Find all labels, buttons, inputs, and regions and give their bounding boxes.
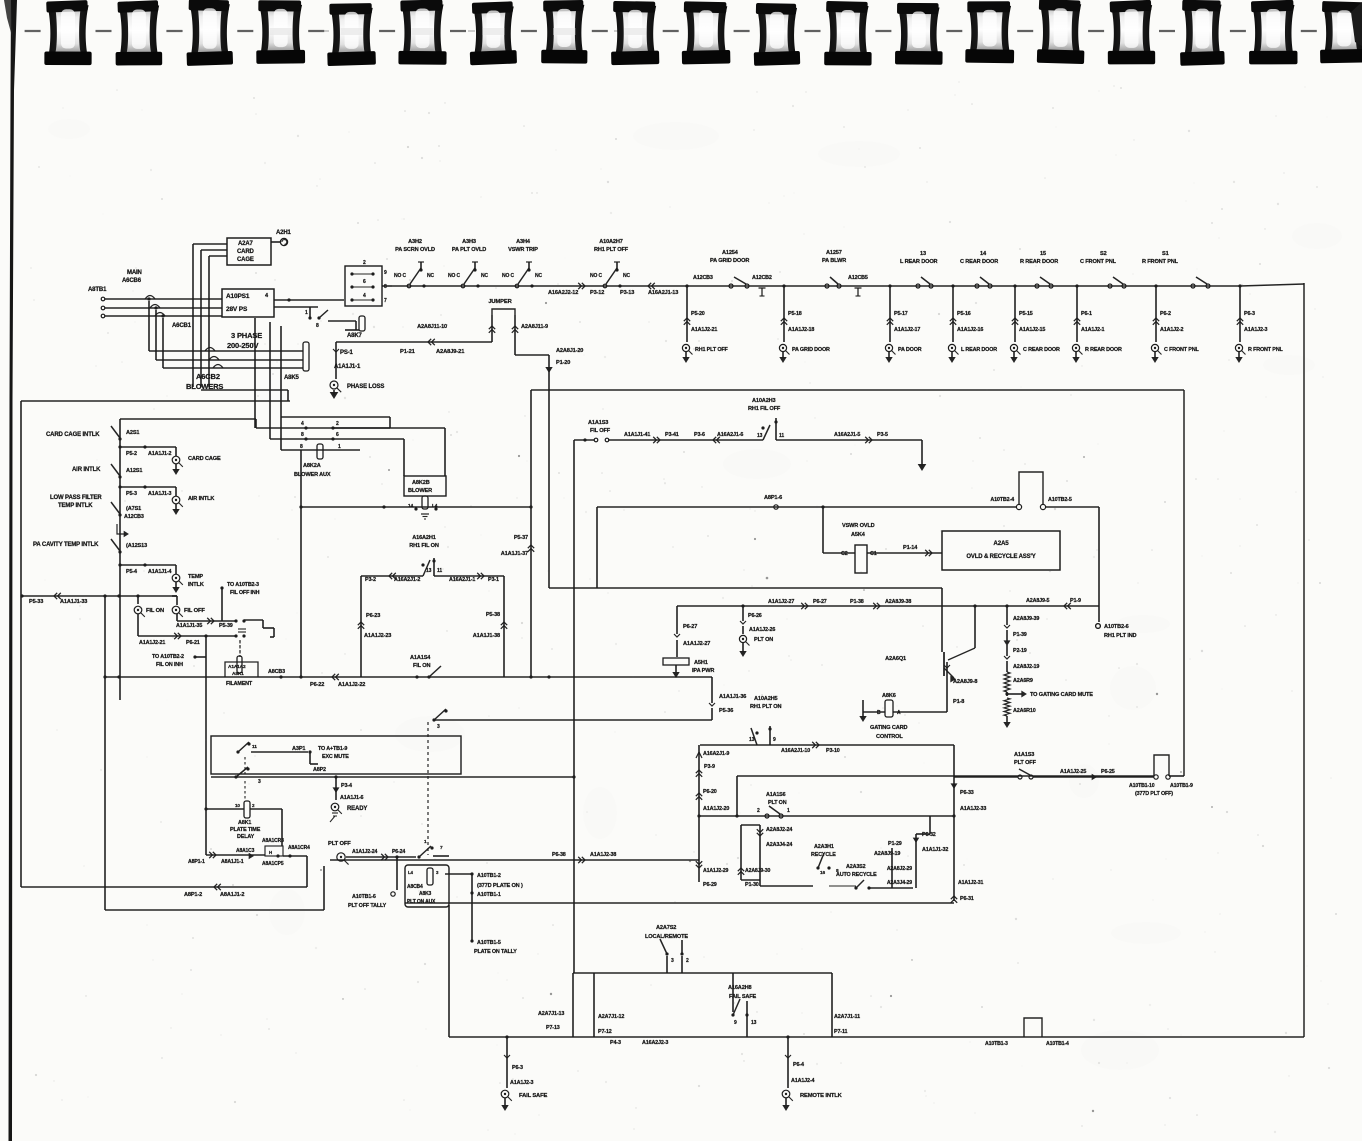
svg-text:A2S1: A2S1	[126, 430, 139, 436]
svg-text:8: 8	[316, 323, 319, 329]
svg-text:A1A1J1-32: A1A1J1-32	[922, 847, 948, 853]
svg-text:7: 7	[384, 298, 387, 304]
svg-text:C REAR DOOR: C REAR DOOR	[960, 259, 998, 265]
svg-text:P6-25: P6-25	[1101, 769, 1115, 775]
svg-text:A2H1: A2H1	[276, 230, 292, 236]
svg-text:A8K1: A8K1	[238, 820, 251, 826]
svg-text:A1A1J2-26: A1A1J2-26	[749, 627, 775, 633]
svg-text:P5-18: P5-18	[788, 311, 802, 317]
svg-text:H: H	[269, 850, 272, 855]
svg-text:C REAR DOOR: C REAR DOOR	[1023, 347, 1060, 353]
svg-text:P6-21: P6-21	[186, 640, 200, 646]
svg-text:A2A8J2-19: A2A8J2-19	[1013, 664, 1039, 670]
svg-text:P5-33: P5-33	[29, 599, 43, 605]
svg-text:P5-39: P5-39	[219, 623, 233, 629]
svg-text:A8K6: A8K6	[882, 693, 896, 699]
svg-text:A2A6Q1: A2A6Q1	[885, 656, 906, 662]
svg-text:RH1 FIL OFF: RH1 FIL OFF	[748, 406, 781, 412]
svg-text:P4-3: P4-3	[610, 1040, 621, 1046]
svg-text:A1A1J2-31: A1A1J2-31	[958, 880, 983, 886]
svg-text:P1-30: P1-30	[745, 882, 759, 888]
svg-text:P6-27: P6-27	[813, 599, 827, 605]
svg-text:A16A2J2-12: A16A2J2-12	[548, 290, 578, 296]
svg-text:A8K7: A8K7	[347, 333, 363, 339]
svg-text:FIL OFF: FIL OFF	[590, 428, 611, 434]
svg-text:A8K1: A8K1	[232, 671, 244, 677]
svg-text:P3-1: P3-1	[488, 577, 499, 583]
svg-text:A2A7J1-11: A2A7J1-11	[834, 1014, 860, 1020]
svg-text:RH1 PLT IND: RH1 PLT IND	[1104, 633, 1137, 639]
svg-text:R REAR DOOR: R REAR DOOR	[1020, 259, 1058, 265]
svg-text:PA PLT OVLD: PA PLT OVLD	[452, 247, 486, 253]
svg-text:A6CB6: A6CB6	[122, 278, 142, 284]
svg-text:A2A8J2-24: A2A8J2-24	[766, 827, 792, 833]
svg-text:A2A7: A2A7	[238, 241, 254, 247]
svg-text:A1A1A2: A1A1A2	[228, 664, 246, 670]
svg-text:NC: NC	[481, 273, 488, 279]
svg-text:P1-21: P1-21	[400, 349, 416, 355]
svg-text:A1A1J1-3: A1A1J1-3	[148, 491, 172, 497]
svg-text:A2A8J9-19: A2A8J9-19	[874, 851, 900, 857]
svg-text:A16A2J2-3: A16A2J2-3	[642, 1040, 668, 1046]
svg-text:A1254: A1254	[722, 250, 739, 256]
svg-text:14: 14	[980, 251, 987, 257]
svg-text:OVLD & RECYCLE ASS'Y: OVLD & RECYCLE ASS'Y	[966, 554, 1035, 560]
svg-text:6: 6	[363, 279, 366, 285]
svg-text:2: 2	[757, 808, 760, 814]
svg-text:9: 9	[384, 270, 387, 276]
svg-text:14: 14	[408, 503, 414, 509]
svg-text:P5-20: P5-20	[691, 311, 705, 317]
svg-text:1: 1	[338, 444, 341, 450]
svg-text:A3P1: A3P1	[292, 746, 305, 752]
svg-text:NO C: NO C	[502, 273, 514, 279]
svg-text:CARD CAGE: CARD CAGE	[188, 456, 221, 462]
svg-text:AIR INTLK: AIR INTLK	[72, 467, 101, 473]
svg-text:A10TB1-10: A10TB1-10	[1129, 783, 1155, 789]
svg-text:A2A8J11-9: A2A8J11-9	[521, 324, 548, 330]
svg-text:FIL OFF INH: FIL OFF INH	[230, 590, 260, 596]
svg-text:A2A7S2: A2A7S2	[656, 925, 676, 931]
svg-text:A8TB1: A8TB1	[88, 287, 107, 293]
svg-text:A10TB2-5: A10TB2-5	[1048, 497, 1072, 503]
svg-text:A1A1J2-27: A1A1J2-27	[683, 641, 710, 647]
svg-text:A16A2J1-5: A16A2J1-5	[834, 432, 860, 438]
svg-text:200-250V: 200-250V	[227, 341, 258, 350]
svg-text:P7-11: P7-11	[834, 1029, 847, 1035]
svg-text:P6-1: P6-1	[1081, 311, 1092, 317]
svg-text:C FRONT PNL: C FRONT PNL	[1164, 347, 1199, 353]
svg-text:A1A1J2-38: A1A1J2-38	[590, 852, 616, 858]
svg-text:CARD: CARD	[237, 249, 255, 255]
svg-text:A8A1CR4: A8A1CR4	[288, 845, 310, 851]
svg-text:A16A2J1-1: A16A2J1-1	[449, 577, 475, 583]
svg-text:JUMPER: JUMPER	[488, 299, 512, 305]
svg-text:LOW PASS FILTER: LOW PASS FILTER	[50, 495, 102, 501]
svg-text:(A12S13: (A12S13	[126, 543, 147, 549]
svg-text:NC: NC	[427, 273, 434, 279]
svg-text:P1-20: P1-20	[556, 360, 570, 366]
svg-text:11: 11	[779, 433, 784, 439]
svg-text:P6-2: P6-2	[1160, 311, 1171, 317]
svg-text:NO C: NO C	[590, 273, 602, 279]
svg-text:TEMP INTLK: TEMP INTLK	[58, 503, 93, 509]
svg-text:L4: L4	[408, 870, 414, 875]
svg-text:11: 11	[437, 568, 442, 574]
svg-text:1: 1	[305, 310, 308, 316]
svg-text:A3H3: A3H3	[462, 239, 476, 245]
svg-text:A10TB1-5: A10TB1-5	[477, 940, 501, 946]
svg-text:A1A1J2-33: A1A1J2-33	[960, 806, 986, 812]
svg-text:A8A1CP5: A8A1CP5	[262, 861, 284, 867]
svg-text:13: 13	[426, 568, 432, 574]
svg-text:2: 2	[686, 958, 689, 964]
svg-text:P7-12: P7-12	[598, 1029, 612, 1035]
svg-text:CARD CAGE INTLK: CARD CAGE INTLK	[46, 432, 100, 438]
svg-text:CONTROL: CONTROL	[876, 734, 903, 740]
svg-text:P1-38: P1-38	[850, 599, 864, 605]
svg-text:NO C: NO C	[448, 273, 460, 279]
svg-text:EXC MUTE: EXC MUTE	[322, 754, 349, 760]
svg-text:TO GATING CARD MUTE: TO GATING CARD MUTE	[1030, 692, 1093, 698]
svg-text:PHASE LOSS: PHASE LOSS	[347, 384, 384, 390]
svg-text:13: 13	[749, 737, 755, 743]
svg-text:PLT ON AUX: PLT ON AUX	[407, 899, 436, 905]
svg-text:NC: NC	[535, 273, 542, 279]
svg-text:P6-33: P6-33	[960, 790, 974, 796]
svg-text:PA GRID DOOR: PA GRID DOOR	[792, 347, 830, 353]
svg-text:A10TB1-9: A10TB1-9	[1170, 783, 1193, 789]
svg-text:A1A1J1-35: A1A1J1-35	[176, 623, 202, 629]
svg-text:A1A1J2-2: A1A1J2-2	[1160, 327, 1184, 333]
svg-text:10: 10	[235, 803, 240, 808]
svg-text:16: 16	[820, 870, 826, 876]
svg-text:A10TB1-4: A10TB1-4	[1046, 1041, 1069, 1047]
svg-text:A16A2H8: A16A2H8	[728, 985, 752, 991]
svg-text:C FRONT PNL: C FRONT PNL	[1080, 259, 1117, 265]
svg-text:P3-6: P3-6	[694, 432, 705, 438]
svg-text:L REAR DOOR: L REAR DOOR	[961, 347, 997, 353]
svg-text:P6-22: P6-22	[310, 682, 324, 688]
svg-text:P6-29: P6-29	[703, 882, 717, 888]
svg-text:A1A1J1-36: A1A1J1-36	[719, 694, 746, 700]
svg-text:A1A1S3: A1A1S3	[588, 420, 608, 426]
svg-text:IPA PWR: IPA PWR	[692, 668, 714, 674]
svg-text:A1A1J2-15: A1A1J2-15	[1019, 327, 1045, 333]
svg-text:6: 6	[336, 432, 339, 438]
svg-text:A2A5: A2A5	[993, 540, 1009, 547]
svg-text:(377D PLATE ON ): (377D PLATE ON )	[477, 883, 523, 889]
svg-text:P3-9: P3-9	[704, 764, 715, 770]
svg-text:TO A10TB2-3: TO A10TB2-3	[227, 582, 259, 588]
svg-text:P3-4: P3-4	[341, 783, 352, 789]
svg-text:A16A2H1: A16A2H1	[412, 535, 436, 541]
svg-text:3: 3	[671, 958, 674, 964]
svg-text:RH1 PLT OFF: RH1 PLT OFF	[594, 247, 629, 253]
svg-text:A2A3J4-24: A2A3J4-24	[766, 842, 792, 848]
svg-text:MAIN: MAIN	[127, 270, 142, 276]
svg-text:P5-17: P5-17	[894, 311, 908, 317]
svg-text:15: 15	[1040, 251, 1046, 257]
svg-text:P6-32: P6-32	[922, 832, 936, 838]
svg-text:P3-13: P3-13	[620, 290, 634, 296]
svg-text:A1A1J2-3: A1A1J2-3	[510, 1080, 534, 1086]
svg-text:A2A8J11-10: A2A8J11-10	[417, 324, 447, 330]
svg-text:A1A1J2-27: A1A1J2-27	[768, 599, 794, 605]
svg-text:A1A1J2-3: A1A1J2-3	[1244, 327, 1268, 333]
svg-text:A5H1: A5H1	[694, 660, 708, 666]
svg-text:A8A1J1-1: A8A1J1-1	[221, 859, 244, 865]
svg-text:A2A3H1: A2A3H1	[814, 844, 834, 850]
svg-text:A2A7J1-12: A2A7J1-12	[598, 1014, 624, 1020]
svg-text:A12CB3: A12CB3	[693, 275, 713, 281]
svg-text:PA DOOR: PA DOOR	[898, 347, 922, 353]
svg-text:A1A1J1-2: A1A1J1-2	[148, 451, 172, 457]
svg-text:A2A8J1-20: A2A8J1-20	[556, 348, 583, 354]
svg-text:A16A2J1-2: A16A2J1-2	[394, 577, 420, 583]
svg-text:A3H2: A3H2	[408, 239, 422, 245]
svg-text:P6-26: P6-26	[748, 613, 762, 619]
svg-text:P6-38: P6-38	[552, 852, 566, 858]
svg-text:VSWR OVLD: VSWR OVLD	[842, 523, 875, 529]
svg-text:9: 9	[734, 1020, 737, 1026]
svg-text:B: B	[877, 710, 881, 716]
svg-text:A1A1J2-17: A1A1J2-17	[894, 327, 920, 333]
svg-text:PA SCRN OVLD: PA SCRN OVLD	[395, 247, 435, 253]
svg-text:A2A8J9-21: A2A8J9-21	[436, 349, 465, 355]
svg-text:A16A2J1-10: A16A2J1-10	[781, 748, 810, 754]
svg-text:A10TB2-4: A10TB2-4	[990, 497, 1014, 503]
svg-text:READY: READY	[347, 806, 367, 812]
svg-text:A10PS1: A10PS1	[226, 293, 250, 300]
svg-text:C1: C1	[870, 551, 877, 557]
svg-text:A8K2A: A8K2A	[303, 463, 321, 469]
svg-text:2: 2	[336, 421, 339, 427]
svg-text:VSWR TRIP: VSWR TRIP	[508, 247, 538, 253]
svg-text:A2A3S2: A2A3S2	[846, 864, 866, 870]
svg-text:NC: NC	[623, 273, 630, 279]
svg-text:A1A1S3: A1A1S3	[1014, 752, 1034, 758]
svg-text:AIR INTLK: AIR INTLK	[188, 496, 214, 502]
svg-text:FAIL SAFE: FAIL SAFE	[519, 1093, 547, 1099]
svg-text:P5-4: P5-4	[126, 569, 137, 575]
svg-text:A1A1S4: A1A1S4	[410, 655, 431, 661]
svg-text:A8K5: A8K5	[284, 375, 300, 381]
svg-text:P6-20: P6-20	[703, 789, 717, 795]
svg-text:A16A2J1-9: A16A2J1-9	[703, 751, 729, 757]
svg-text:P5-36: P5-36	[719, 708, 733, 714]
svg-text:BLOWER AUX: BLOWER AUX	[294, 472, 331, 478]
svg-text:A10TB1-6: A10TB1-6	[352, 894, 376, 900]
svg-text:A16A2J1-6: A16A2J1-6	[717, 432, 743, 438]
svg-text:PA GRID DOOR: PA GRID DOOR	[710, 258, 749, 264]
svg-text:3: 3	[258, 779, 261, 785]
svg-text:PLATE TIME: PLATE TIME	[230, 827, 261, 833]
svg-text:A10TB1-1: A10TB1-1	[477, 892, 501, 898]
svg-text:P1-29: P1-29	[888, 841, 902, 847]
svg-text:1: 1	[787, 808, 790, 814]
svg-text:PLT OFF: PLT OFF	[328, 841, 351, 847]
svg-text:PLATE ON TALLY: PLATE ON TALLY	[474, 949, 517, 955]
svg-text:A5K4: A5K4	[851, 532, 866, 538]
svg-text:DELAY: DELAY	[237, 834, 255, 840]
svg-text:13: 13	[751, 1020, 757, 1026]
svg-text:A2A6R9: A2A6R9	[1013, 678, 1033, 684]
svg-text:FIL ON INH: FIL ON INH	[156, 662, 183, 668]
svg-text:A16A2J1-13: A16A2J1-13	[648, 290, 678, 296]
svg-text:(A7S1: (A7S1	[126, 506, 141, 512]
svg-text:PLT OFF: PLT OFF	[1014, 760, 1037, 766]
svg-text:P6-3: P6-3	[512, 1065, 523, 1071]
svg-text:3 PHASE: 3 PHASE	[231, 331, 262, 340]
svg-text:P2-19: P2-19	[1013, 648, 1027, 654]
svg-text:P5-16: P5-16	[957, 311, 971, 317]
svg-text:P6-23: P6-23	[366, 613, 380, 619]
svg-text:A2A8J9-8: A2A8J9-8	[953, 679, 977, 685]
svg-text:P3-41: P3-41	[665, 432, 679, 438]
svg-text:GATING CARD: GATING CARD	[870, 725, 908, 731]
svg-text:A1A1J1-37: A1A1J1-37	[501, 551, 528, 557]
svg-text:P6-4: P6-4	[793, 1062, 804, 1068]
svg-text:RH1 FIL ON: RH1 FIL ON	[409, 543, 439, 549]
svg-text:A1A1J2-21: A1A1J2-21	[139, 640, 165, 646]
svg-text:A2A8J2-29: A2A8J2-29	[887, 866, 912, 872]
svg-text:BLOWER: BLOWER	[408, 488, 432, 494]
svg-text:FIL ON: FIL ON	[146, 608, 164, 614]
svg-text:TEMP: TEMP	[188, 574, 203, 580]
svg-text:A: A	[897, 710, 901, 716]
svg-text:A2A8J9-30: A2A8J9-30	[745, 868, 770, 874]
svg-text:A1257: A1257	[826, 250, 842, 256]
svg-text:FIL ON: FIL ON	[413, 663, 430, 669]
svg-text:AUTO RECYCLE: AUTO RECYCLE	[836, 872, 877, 878]
svg-text:A10TB1-3: A10TB1-3	[985, 1041, 1008, 1047]
svg-text:A1A1J1-33: A1A1J1-33	[60, 599, 87, 605]
svg-text:P5-15: P5-15	[1019, 311, 1033, 317]
svg-text:A8CB3: A8CB3	[268, 669, 285, 675]
svg-text:PS-1: PS-1	[340, 350, 354, 356]
svg-text:A10A2H3: A10A2H3	[752, 398, 776, 404]
svg-text:A1A1J2-22: A1A1J2-22	[338, 682, 365, 688]
svg-text:8: 8	[384, 284, 387, 290]
svg-text:INTLK: INTLK	[188, 582, 204, 588]
svg-text:A3H4: A3H4	[516, 239, 531, 245]
svg-text:13: 13	[757, 433, 763, 439]
svg-text:A8K3: A8K3	[419, 891, 432, 897]
svg-text:A1A1J1-4: A1A1J1-4	[148, 569, 172, 575]
svg-text:A1A1J2-18: A1A1J2-18	[788, 327, 814, 333]
svg-text:9: 9	[773, 737, 776, 743]
svg-text:28V PS: 28V PS	[226, 306, 248, 313]
svg-text:L REAR DOOR: L REAR DOOR	[900, 259, 938, 265]
svg-text:A8P1-2: A8P1-2	[184, 892, 202, 898]
svg-text:P7-13: P7-13	[546, 1025, 560, 1031]
svg-text:P3-10: P3-10	[826, 748, 840, 754]
svg-text:A1A1J2-29: A1A1J2-29	[703, 868, 728, 874]
svg-text:LOCAL/REMOTE: LOCAL/REMOTE	[645, 934, 688, 940]
svg-text:A2A8J9-38: A2A8J9-38	[885, 599, 911, 605]
svg-text:A12CB5: A12CB5	[848, 275, 868, 281]
svg-text:A1A1J1-38: A1A1J1-38	[473, 633, 500, 639]
svg-text:P5-3: P5-3	[126, 491, 137, 497]
svg-text:A8P1-1: A8P1-1	[188, 859, 205, 865]
svg-text:A1A1J2-21: A1A1J2-21	[691, 327, 717, 333]
svg-text:A2A6R10: A2A6R10	[1013, 708, 1036, 714]
svg-text:A6CB1: A6CB1	[172, 323, 192, 329]
svg-text:P5-2: P5-2	[126, 451, 137, 457]
svg-text:FIL OFF: FIL OFF	[184, 608, 205, 614]
svg-text:PLT OFF TALLY: PLT OFF TALLY	[348, 903, 387, 909]
svg-text:A8P2: A8P2	[313, 767, 326, 773]
svg-text:P3-12: P3-12	[590, 290, 604, 296]
svg-text:A8P1-6: A8P1-6	[764, 495, 782, 501]
svg-text:RH1 PLT ON: RH1 PLT ON	[750, 704, 781, 710]
svg-text:FILAMENT: FILAMENT	[226, 681, 253, 687]
svg-text:P3-5: P3-5	[877, 432, 888, 438]
svg-text:P1-8: P1-8	[953, 699, 964, 705]
svg-text:PLT ON: PLT ON	[768, 800, 787, 806]
svg-text:4: 4	[301, 421, 304, 427]
svg-text:A1A1J2-24: A1A1J2-24	[352, 849, 377, 855]
svg-text:A2A8J9-5: A2A8J9-5	[1026, 598, 1050, 604]
svg-text:A1A1J2-23: A1A1J2-23	[364, 633, 391, 639]
svg-text:A10TB1-2: A10TB1-2	[477, 873, 501, 879]
svg-text:A2A3J4-29: A2A3J4-29	[887, 880, 912, 886]
svg-text:NO C: NO C	[394, 273, 406, 279]
svg-text:P6-31: P6-31	[960, 896, 974, 902]
svg-text:A6CB2: A6CB2	[196, 372, 220, 381]
svg-text:A1A1J2-16: A1A1J2-16	[957, 327, 983, 333]
svg-text:S1: S1	[1162, 251, 1169, 257]
svg-text:A8CB4: A8CB4	[407, 884, 423, 890]
svg-text:8: 8	[301, 432, 304, 438]
svg-text:REMOTE INTLK: REMOTE INTLK	[800, 1093, 843, 1099]
svg-text:PA CAVITY TEMP INTLK: PA CAVITY TEMP INTLK	[33, 542, 99, 548]
svg-text:A10A2H5: A10A2H5	[754, 696, 778, 702]
svg-text:P6-27: P6-27	[683, 624, 697, 630]
svg-text:CAGE: CAGE	[237, 257, 254, 263]
svg-text:R REAR DOOR: R REAR DOOR	[1085, 347, 1122, 353]
svg-text:R FRONT PNL: R FRONT PNL	[1248, 347, 1283, 353]
svg-text:A12S1: A12S1	[126, 468, 142, 474]
svg-text:C2: C2	[841, 551, 848, 557]
svg-text:A1A1J2-1: A1A1J2-1	[1081, 327, 1105, 333]
svg-text:A10A2H7: A10A2H7	[599, 239, 623, 245]
svg-text:P6-3: P6-3	[1244, 311, 1255, 317]
svg-text:TO A10TB2-2: TO A10TB2-2	[152, 654, 184, 660]
svg-text:P1-39: P1-39	[1013, 632, 1027, 638]
svg-text:P6-24: P6-24	[392, 849, 405, 855]
svg-text:A12CB3: A12CB3	[124, 514, 144, 520]
svg-text:A2A7J1-13: A2A7J1-13	[538, 1011, 564, 1017]
svg-text:A2A8J9-39: A2A8J9-39	[1013, 616, 1039, 622]
svg-text:P5-38: P5-38	[486, 612, 500, 618]
svg-text:A1A1J1-1: A1A1J1-1	[334, 364, 361, 370]
svg-text:PA BLWR: PA BLWR	[822, 258, 846, 264]
svg-text:PLT ON: PLT ON	[754, 637, 773, 643]
svg-text:P3-2: P3-2	[365, 577, 376, 583]
svg-text:A1A1J1-41: A1A1J1-41	[624, 432, 650, 438]
svg-text:A8A1CR3: A8A1CR3	[262, 838, 284, 844]
svg-text:A8K2B: A8K2B	[412, 480, 430, 486]
svg-text:A1A1J1-6: A1A1J1-6	[340, 795, 364, 801]
svg-text:A8A1J1-2: A8A1J1-2	[220, 892, 244, 898]
svg-text:8: 8	[300, 444, 303, 450]
svg-text:A1A1J2-4: A1A1J2-4	[791, 1078, 815, 1084]
svg-text:RH1 PLT OFF: RH1 PLT OFF	[695, 347, 729, 353]
svg-text:11: 11	[252, 744, 257, 750]
svg-text:P1-14: P1-14	[903, 545, 918, 551]
